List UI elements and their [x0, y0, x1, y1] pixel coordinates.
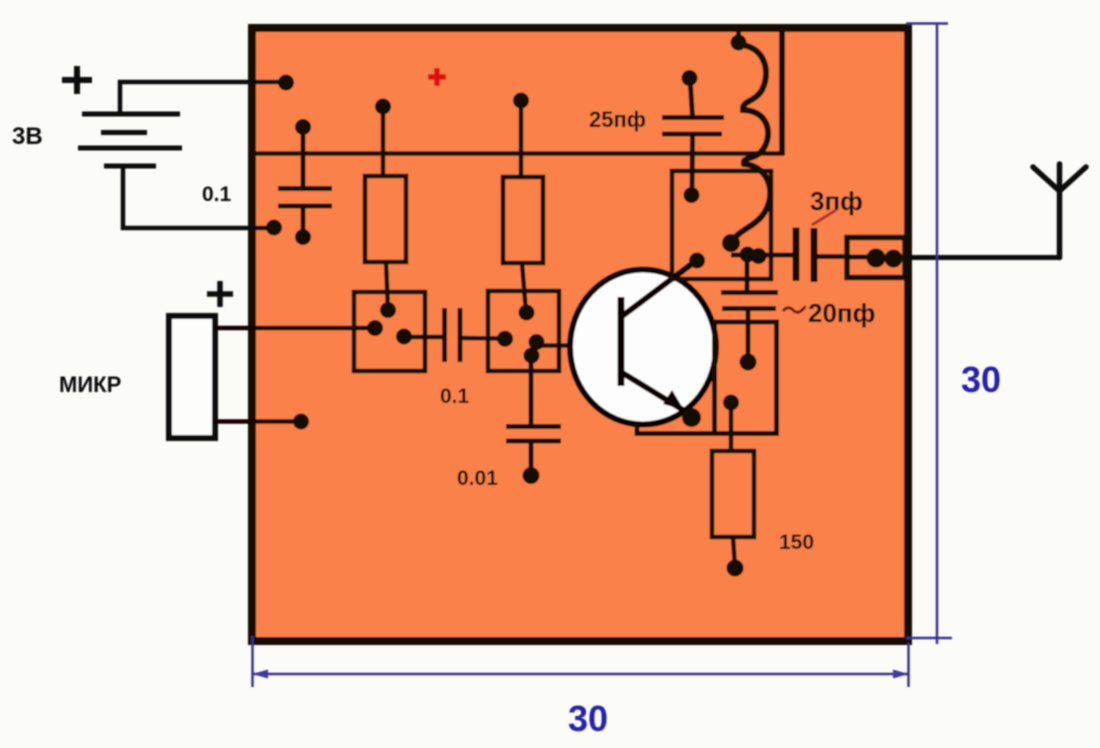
capacitor C4 tilde: [783, 307, 806, 312]
node R3 bottom: [727, 560, 744, 577]
supply bus riser: [779, 30, 785, 156]
microphone MK1: [169, 316, 215, 438]
svg-text:0.1: 0.1: [440, 385, 470, 408]
resistor R3 150: [712, 403, 754, 568]
wire C2 to box2: [460, 336, 505, 341]
antenna pad box: [847, 238, 905, 278]
antenna W1: [1033, 164, 1086, 258]
transistor Q1 collector lead: [621, 260, 697, 317]
battery B1 cells: [78, 114, 182, 166]
node L1 top: [731, 35, 747, 51]
node R2 top: [513, 93, 529, 109]
pad box4 (emitter node): [715, 322, 777, 434]
node C1 bottom: [295, 229, 311, 245]
node box1 left: [367, 320, 383, 336]
node box2 bottom: [524, 348, 540, 364]
node emitter: [682, 408, 701, 427]
wire board to antenna: [903, 255, 1060, 260]
wire base: [537, 343, 622, 348]
battery B1 plus sign: [62, 66, 92, 94]
svg-text:30: 30: [961, 359, 1001, 400]
emitter wire: [637, 424, 714, 434]
node R1 top: [375, 99, 391, 115]
inductor L1 stub: [736, 31, 741, 42]
emitter arrow: [663, 390, 684, 410]
svg-text:20пф: 20пф: [808, 298, 875, 328]
capacitor C5 25пф: [662, 78, 724, 194]
wire battery plus to board: [120, 82, 286, 112]
resistor R1: [365, 107, 406, 311]
node box2 top: [519, 305, 535, 321]
svg-text:25пф: 25пф: [589, 107, 646, 132]
transistor Q1 base bar: [618, 297, 625, 386]
svg-text:МИКР: МИКР: [59, 372, 121, 397]
dimension line right 30: [906, 24, 952, 645]
node battery minus entry: [266, 220, 282, 236]
red plus (supply polarity mark): [428, 68, 446, 86]
node junction b: [751, 248, 767, 264]
wire box1 to C2: [404, 335, 444, 340]
node R3 top: [723, 395, 739, 411]
microphone plus sign: [207, 281, 233, 307]
node box2 left: [497, 331, 513, 347]
node ant pad a: [867, 249, 886, 268]
node C5 top: [682, 70, 698, 86]
svg-text:30: 30: [568, 698, 608, 739]
node battery plus entry: [278, 75, 294, 91]
transistor Q1 emitter lead: [621, 372, 688, 413]
pad box1 (mic/base junction): [354, 292, 425, 371]
node collector: [689, 253, 705, 269]
capacitor C2 0.1 coupling: [445, 308, 461, 362]
node C1 top: [295, 119, 311, 135]
node C4 bottom: [740, 354, 757, 371]
capacitor C6 3пф: [796, 228, 814, 283]
dimension arrows bottom: [253, 670, 269, 679]
supply bus wire: [256, 151, 784, 156]
pad box2 (base node): [488, 291, 559, 371]
capacitor C4 20пф: [721, 254, 778, 362]
node mic bottom: [293, 414, 309, 430]
svg-text:3пф: 3пф: [810, 186, 863, 216]
node ant pad b: [885, 250, 903, 268]
wire C6 to antenna pad: [813, 254, 847, 259]
node C5 bottom: [684, 187, 700, 203]
capacitor C1 0.1 bypass: [278, 127, 332, 237]
node C3 bottom: [523, 467, 540, 484]
pad box3 (collector tank node): [672, 171, 771, 279]
svg-text:150: 150: [779, 531, 814, 554]
capacitor C3 0.01: [506, 356, 561, 476]
svg-text:3В: 3В: [12, 123, 43, 150]
transistor Q1 body: [570, 270, 716, 425]
svg-text:0.1: 0.1: [202, 183, 232, 206]
pointer line 3пф: [812, 210, 836, 225]
node junction a: [740, 247, 756, 263]
node box2 right: [529, 334, 545, 350]
resistor R2: [503, 101, 543, 313]
wire battery minus to board: [123, 168, 274, 228]
wire mic top to pad box1: [215, 326, 375, 331]
dimension line bottom 30: [253, 636, 909, 687]
svg-text:0.01: 0.01: [457, 467, 498, 490]
wire collector node to antenna coupling: [731, 253, 793, 258]
PCB board outline: [252, 28, 908, 641]
wire through antenna pad: [846, 255, 903, 260]
node box1 right: [396, 329, 412, 345]
inductor L1 coil: [733, 45, 770, 240]
node box1 top: [380, 302, 396, 318]
node L1 bottom: [722, 234, 740, 252]
wire mic bottom stub: [215, 419, 301, 424]
